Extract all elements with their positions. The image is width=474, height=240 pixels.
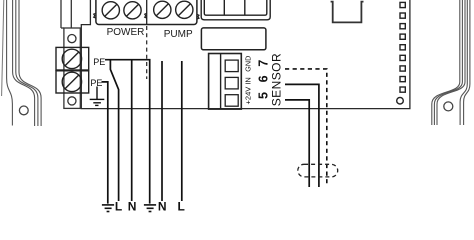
block right clip [197, 14, 199, 19]
sensor terminal square IN [225, 95, 238, 107]
wire POWER N (w3) [131, 60, 133, 201]
svg-text:GND: GND [243, 56, 252, 72]
shielded cable marker (dashed stadium) [298, 164, 338, 177]
svg-text:POWER: POWER [107, 27, 145, 38]
enclosure left wall [2, 0, 42, 126]
tray connector top middle [201, 0, 270, 20]
svg-text:5: 5 [256, 92, 270, 99]
pin header hole [397, 97, 404, 104]
svg-text:PE: PE [93, 57, 105, 67]
terminal block POWER+PUMP outline [96, 0, 197, 25]
PCB board outline [81, 0, 410, 109]
sensor terminal block [209, 54, 242, 110]
block divider [146, 0, 148, 25]
svg-text:N: N [128, 200, 137, 214]
sensor terminal square 24V [225, 77, 238, 89]
module blank rectangle [201, 28, 266, 50]
chassis ground symbol [90, 87, 105, 106]
wire sensor 6 [285, 84, 319, 187]
wire PE top to ground (w4) [105, 60, 150, 204]
wire PUMP N (w5) [161, 61, 163, 201]
wire PE bottom to ground (w1) [102, 82, 108, 204]
svg-text:L: L [115, 200, 122, 214]
dashed separator between POWER and PUMP circuits [146, 26, 148, 79]
wire sensor 7 (dashed) [285, 69, 327, 184]
PE strip body [64, 28, 80, 108]
U bracket top right [331, 2, 364, 23]
wire PUMP L (w6) [181, 61, 183, 201]
svg-text:7: 7 [256, 60, 270, 67]
svg-text:L: L [178, 200, 185, 214]
svg-text:PUMP: PUMP [164, 29, 193, 40]
enclosure left screw hole [19, 106, 28, 115]
PE strip feed lines [60, 0, 62, 28]
screw terminal PUMP-N [154, 1, 171, 18]
pin header column [400, 2, 405, 92]
svg-text:+24V IN: +24V IN [243, 77, 252, 104]
PE screw terminal 1 [56, 47, 89, 70]
screw terminal POWER-N [124, 2, 141, 19]
enclosure right wall [432, 0, 470, 125]
wire POWER L (w2) [110, 60, 118, 201]
ground symbol under w4 [144, 205, 156, 212]
ground symbol under w1 [102, 205, 114, 212]
svg-text:N: N [158, 200, 167, 214]
PE screw terminal 2 [56, 71, 89, 93]
wire sensor 5 [285, 100, 309, 187]
sensor terminal square GND [225, 60, 238, 72]
svg-text:6: 6 [256, 75, 270, 82]
strip hole bottom [68, 97, 76, 105]
screw terminal PUMP-L [176, 1, 193, 18]
block middle clip [145, 13, 147, 18]
svg-text:SENSOR: SENSOR [270, 53, 284, 106]
enclosure right screw hole [444, 102, 453, 111]
block left clip [94, 13, 96, 18]
strip hole top [68, 35, 76, 43]
screw terminal POWER-L [102, 2, 119, 19]
